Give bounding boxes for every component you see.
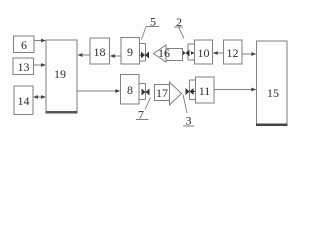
svg-text:8: 8 bbox=[127, 83, 133, 97]
svg-text:10: 10 bbox=[198, 46, 210, 60]
svg-text:16: 16 bbox=[158, 46, 170, 60]
svg-text:12: 12 bbox=[227, 46, 239, 60]
svg-text:13: 13 bbox=[18, 60, 30, 74]
svg-text:9: 9 bbox=[127, 45, 133, 59]
svg-text:2: 2 bbox=[176, 15, 182, 29]
svg-text:7: 7 bbox=[138, 108, 144, 122]
svg-text:3: 3 bbox=[186, 114, 192, 128]
svg-text:14: 14 bbox=[18, 94, 30, 108]
svg-text:19: 19 bbox=[54, 67, 66, 81]
svg-text:5: 5 bbox=[150, 15, 156, 29]
svg-text:18: 18 bbox=[94, 45, 106, 59]
svg-text:11: 11 bbox=[199, 84, 211, 98]
svg-text:15: 15 bbox=[267, 86, 279, 100]
svg-text:6: 6 bbox=[21, 38, 27, 52]
svg-text:17: 17 bbox=[156, 86, 168, 100]
